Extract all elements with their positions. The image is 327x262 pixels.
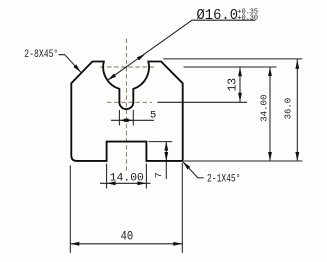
svg-text:13: 13 xyxy=(226,78,239,92)
svg-text:40: 40 xyxy=(121,229,134,243)
svg-text:2-8X45°: 2-8X45° xyxy=(24,49,58,61)
svg-text:2-1X45°: 2-1X45° xyxy=(207,173,241,185)
svg-text:+0.30: +0.30 xyxy=(238,15,259,23)
svg-text:7: 7 xyxy=(153,172,164,178)
svg-text:34.00: 34.00 xyxy=(259,94,270,122)
svg-text:5: 5 xyxy=(150,109,156,121)
svg-text:36.0: 36.0 xyxy=(283,98,294,120)
svg-text:Ø16.0: Ø16.0 xyxy=(197,7,239,24)
svg-text:14.00: 14.00 xyxy=(110,172,144,184)
